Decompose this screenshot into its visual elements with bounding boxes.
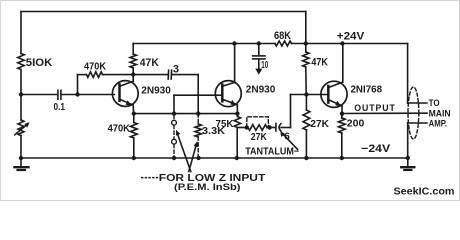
svg-text:+24V: +24V xyxy=(337,31,365,43)
svg-text:2NI768: 2NI768 xyxy=(351,83,383,95)
resistor 75K (Q2 emitter) xyxy=(236,114,238,117)
wire +24V rail (with 68K in series) xyxy=(133,43,275,45)
jack (optional low-Z input connector) xyxy=(172,116,177,158)
svg-text:470K: 470K xyxy=(84,61,106,73)
junction Q1 emitter at emitter line xyxy=(132,111,136,115)
resistor 470K (Q1 emitter to ground) xyxy=(133,114,135,123)
junction 75K at bottom rail xyxy=(235,156,239,160)
pointer arrow to low-Z jack xyxy=(178,134,191,172)
junction jack at emitter line xyxy=(172,111,176,115)
junction -24V / right ground at bottom rail xyxy=(406,156,410,160)
svg-text:−24V: −24V xyxy=(361,143,391,155)
wire cap 6 up to Q3 base line xyxy=(281,127,290,129)
transistor Q2 2N930 xyxy=(215,44,241,114)
capacitor 0.1 xyxy=(57,90,59,99)
svg-text:27K: 27K xyxy=(251,132,268,143)
svg-text:AMP.: AMP. xyxy=(429,119,448,130)
svg-text:3: 3 xyxy=(173,63,179,75)
junction +24V rail / top feedback rail / 47K xyxy=(304,41,308,45)
junction Q2 collector at +24V rail xyxy=(232,41,236,45)
svg-text:SeekIC.com: SeekIC.com xyxy=(394,185,455,197)
svg-text:47K: 47K xyxy=(140,57,159,69)
pointer arrow to 3.3K xyxy=(189,145,196,172)
junction 27K left end xyxy=(245,125,249,129)
junction Q3 collector at +24V rail xyxy=(340,41,344,45)
resistor 68K xyxy=(275,41,292,46)
svg-text:2N930: 2N930 xyxy=(246,84,276,95)
junction 200 at bottom rail xyxy=(340,156,344,160)
svg-text:OUTPUT: OUTPUT xyxy=(354,103,396,114)
junction 470K at bottom rail xyxy=(132,156,136,160)
dashed box around 27K xyxy=(247,117,268,127)
ground symbol right xyxy=(407,158,409,166)
junction 47K / 27K at Q3 base xyxy=(304,92,308,96)
capacitor 6 tantalum xyxy=(275,124,277,132)
junction cap 10 at +24V rail xyxy=(257,41,261,45)
junction Q3 emitter / 200 / output xyxy=(340,112,344,116)
capacitor 3 xyxy=(167,70,169,79)
wire output line xyxy=(342,112,427,114)
photoresistor / variable detector element xyxy=(18,120,24,136)
junction cap 3 / 3.3K at emitter line xyxy=(196,111,200,115)
wire 0.1 cap to Q1 base xyxy=(62,94,114,96)
junction left ground at bottom rail xyxy=(19,156,23,160)
junction 27K at bottom rail xyxy=(304,156,308,160)
wire emitter line xyxy=(134,113,238,115)
svg-text:6: 6 xyxy=(284,132,290,143)
wire +24V to connector pin 1 xyxy=(407,44,409,104)
junction Q2 emitter / 75K at emitter line xyxy=(235,111,239,115)
svg-text:2N930: 2N930 xyxy=(141,86,171,97)
svg-text:10: 10 xyxy=(261,60,268,71)
junction 3.3K at bottom rail xyxy=(196,156,200,160)
resistor 3.3K (optional, dashed leads) xyxy=(197,114,199,124)
junction jack at bottom rail xyxy=(172,156,176,160)
resistor 200 (Q3 emitter) xyxy=(341,114,343,119)
junction Q1 collector / 47K / 470K / cap 3 xyxy=(131,72,135,76)
transistor Q1 2N930 xyxy=(112,75,138,114)
wire input line to 0.1 cap xyxy=(21,94,57,96)
wire left column (input node column) xyxy=(20,12,22,54)
resistor 47K (Q3 base, from +24V) xyxy=(305,44,307,53)
resistor 510K xyxy=(18,54,24,70)
svg-text:68K: 68K xyxy=(274,30,291,42)
junction 27K right end / cap 6 xyxy=(267,125,271,129)
junction input node (510K/detector/0.1 cap) xyxy=(19,92,23,96)
svg-text:TANTALUM−: TANTALUM− xyxy=(245,146,299,157)
svg-text:3.3K: 3.3K xyxy=(202,125,225,137)
svg-text:0.1: 0.1 xyxy=(54,101,66,113)
svg-text:5IOK: 5IOK xyxy=(26,57,53,69)
svg-text:27K: 27K xyxy=(310,118,329,130)
junction 470K feedback at Q1 base xyxy=(75,92,79,96)
wire Q2 base xyxy=(174,94,222,96)
resistor 27K (in dashed box) xyxy=(248,125,267,131)
wire -24V to connector pin 3 xyxy=(408,122,427,124)
capacitor 10 (decoupling, arrow to ground) xyxy=(258,44,260,56)
svg-text:47K: 47K xyxy=(311,57,328,69)
resistor 27K (Q3 base to -24V) xyxy=(305,95,307,111)
svg-text:470K: 470K xyxy=(108,123,131,135)
wire cap 3 to emitter line xyxy=(172,74,198,76)
svg-text:(P.E.M. InSb): (P.E.M. InSb) xyxy=(174,182,241,193)
resistor 470K feedback (Q1 base to collector) xyxy=(77,75,79,95)
resistor 47K (Q1 collector load) xyxy=(132,44,134,55)
connector cable ellipse xyxy=(408,87,419,139)
wire ground / -24V bottom rail xyxy=(21,157,408,159)
label FOR LOW Z INPUT xyxy=(141,177,158,179)
wire top rail xyxy=(21,11,306,13)
svg-text:200: 200 xyxy=(347,118,365,130)
ground symbol left xyxy=(20,158,22,166)
wire coupling line with capacitor 3 xyxy=(133,74,168,76)
wire Q3 base line xyxy=(291,94,329,96)
pointer arrow TANTALUM to cap 6 xyxy=(283,134,298,150)
wire tantalum line with 27K xyxy=(237,127,248,129)
pot wiper arrow xyxy=(15,124,28,135)
wire top rail drop to +24V rail xyxy=(305,12,307,44)
transistor Q3 2N1768 xyxy=(321,44,347,114)
